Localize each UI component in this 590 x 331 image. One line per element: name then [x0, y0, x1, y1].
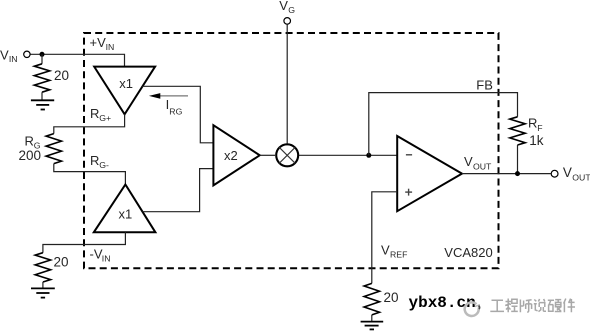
wire to ground	[371, 315, 373, 321]
wire op-amp non-inverting input to V_REF	[372, 192, 397, 284]
plus sign	[405, 191, 412, 193]
svg-text:G+: G+	[99, 113, 111, 123]
resistor R1 20 (V_IN termination)	[34, 64, 49, 92]
svg-text:R: R	[90, 153, 99, 168]
glyph gong	[490, 300, 504, 311]
op-amp buffer x1 (bottom, -V_IN)	[94, 185, 156, 233]
svg-text:20: 20	[384, 290, 399, 305]
op-amp U1 output amplifier	[397, 136, 462, 211]
terminal V_IN	[24, 51, 30, 57]
wire to ground	[42, 282, 44, 288]
svg-text:IN: IN	[9, 54, 18, 64]
wire resistor stem top	[41, 54, 43, 64]
watermark comma mark	[479, 306, 480, 310]
svg-text:FB: FB	[476, 78, 493, 93]
wire V_G to multiplier	[286, 24, 288, 143]
resistor R_REF 20	[364, 283, 379, 315]
svg-text:x1: x1	[119, 206, 133, 221]
wire buffer output to R_G+ pin	[54, 114, 125, 133]
svg-text:V: V	[0, 47, 9, 62]
svg-text:IN: IN	[106, 42, 115, 52]
amplifier x2	[213, 125, 259, 185]
wire op-amp output to V_OUT terminal	[462, 173, 551, 175]
wire R_G- pin	[54, 164, 126, 185]
resistor R_G 200	[46, 134, 61, 164]
op-amp buffer x1 (top, +V_IN)	[94, 67, 155, 115]
svg-text:F: F	[537, 123, 542, 133]
svg-text:V: V	[563, 165, 572, 180]
wire R_F to output node	[517, 145, 519, 174]
dashed IC boundary box VCA820	[84, 33, 499, 268]
terminal V_OUT	[551, 170, 558, 177]
glyph ying	[548, 300, 562, 312]
svg-text:V: V	[464, 154, 473, 169]
wire feedback FB	[369, 93, 518, 156]
node junction output	[515, 171, 520, 176]
ground (V_REF)	[361, 322, 384, 330]
glyph cheng	[505, 299, 518, 313]
svg-text:V: V	[381, 243, 390, 258]
svg-text:1k: 1k	[529, 133, 544, 148]
watermark logo swirl	[465, 302, 479, 316]
svg-text:G: G	[288, 5, 295, 15]
glyph shuo	[534, 299, 546, 312]
svg-text:OUT: OUT	[473, 161, 492, 171]
ground (-V_IN)	[31, 288, 55, 297]
node junction at V_IN	[40, 52, 45, 57]
wire buffer tap to x2 top input	[142, 86, 213, 143]
current arrow I_RG	[159, 95, 188, 97]
svg-text:20: 20	[54, 68, 69, 83]
terminal V_G	[284, 18, 291, 25]
watermark Chinese text 工程师说硬件 (pseudo-glyph strokes)	[490, 299, 575, 313]
glyph jian	[564, 299, 575, 313]
wire resistor to ground	[41, 92, 43, 100]
svg-text:R: R	[90, 106, 99, 121]
wire buffer tap to x2 bottom input	[142, 169, 213, 212]
wire V_IN input to buffer	[30, 54, 125, 66]
wire x2 to multiplier	[260, 154, 275, 156]
svg-text:+V: +V	[90, 35, 107, 50]
svg-text:200: 200	[19, 148, 42, 163]
svg-text:V: V	[279, 0, 288, 13]
svg-text:G-: G-	[99, 160, 109, 170]
glyph shi	[520, 300, 531, 313]
svg-text:x1: x1	[119, 76, 133, 91]
ground (V_IN)	[31, 100, 54, 109]
svg-text:RG: RG	[169, 107, 182, 117]
svg-text:20: 20	[54, 255, 69, 270]
svg-text:VCA820: VCA820	[444, 245, 492, 260]
svg-text:x2: x2	[224, 148, 238, 163]
node junction feedback	[366, 153, 371, 158]
svg-text:R: R	[528, 116, 537, 131]
resistor R2 20 (-V_IN termination)	[35, 253, 50, 282]
wire multiplier to op-amp inverting input	[299, 154, 397, 156]
minus sign	[406, 154, 412, 156]
svg-text:IN: IN	[102, 253, 111, 263]
resistor R_F 1k	[510, 117, 525, 145]
svg-text:R: R	[25, 133, 34, 148]
wire -V_IN input	[43, 232, 126, 252]
svg-text:REF: REF	[390, 250, 407, 260]
multiplier (circle with X)	[276, 144, 298, 166]
svg-text:OUT: OUT	[572, 172, 590, 182]
